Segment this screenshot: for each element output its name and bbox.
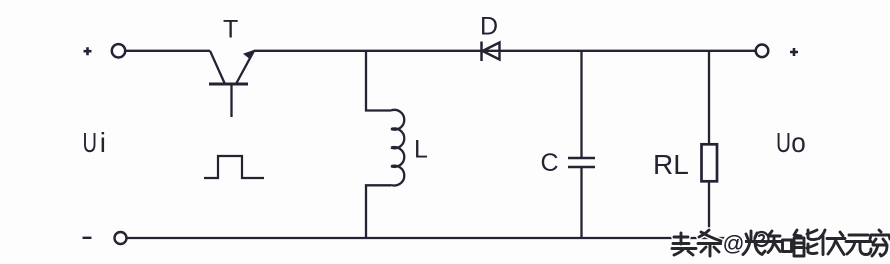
- transistor T base lead: [230, 85, 232, 117]
- node + (input positive polarity mark): [84, 47, 92, 55]
- transistor T base bar: [209, 83, 248, 86]
- bottom terminal (bottom left): [115, 232, 127, 244]
- watermark char 穷: [870, 230, 890, 256]
- watermark char 光 with circle mark: [743, 231, 769, 255]
- node + (output positive polarity mark): [790, 48, 798, 56]
- pulse waveform symbol (base drive): [204, 156, 264, 178]
- capacitor C branch: top wire: [580, 51, 582, 158]
- transistor T collector arrowhead: [243, 50, 255, 59]
- wire top rail: collector to output terminal: [254, 50, 756, 52]
- output terminal (top right): [756, 45, 769, 58]
- watermark white halo pass: [672, 230, 890, 256]
- capacitor C bottom plate: [568, 166, 595, 169]
- watermark char 能: [794, 230, 817, 256]
- diode D triangle (pointing left): [483, 43, 500, 60]
- svg-text:@: @: [723, 232, 745, 256]
- svg-text:C: C: [541, 149, 559, 177]
- svg-text:o: o: [791, 127, 806, 158]
- svg-text:i: i: [100, 127, 106, 158]
- label Uo: [776, 127, 806, 158]
- svg-text:U: U: [83, 127, 98, 158]
- svg-text:L: L: [414, 136, 428, 164]
- inductor L coil: [391, 110, 404, 186]
- resistor RL bottom wire: [708, 181, 710, 238]
- diode D cathode bar: [480, 42, 483, 62]
- capacitor C top plate: [568, 157, 595, 160]
- svg-text:T: T: [223, 16, 238, 44]
- svg-text:RL: RL: [653, 149, 689, 180]
- inductor L bottom jog and wire to bottom rail: [366, 185, 391, 238]
- resistor RL body: [702, 144, 718, 181]
- input terminal (top left): [112, 44, 125, 57]
- capacitor C bottom wire: [580, 167, 582, 238]
- transistor T emitter line: [210, 51, 225, 83]
- watermark char 知: [767, 231, 792, 253]
- label Ui: [83, 127, 107, 158]
- node - (negative polarity mark, bottom left): [83, 237, 92, 239]
- transistor T collector line: [237, 51, 255, 83]
- watermark char 无: [846, 235, 871, 255]
- wire input terminal to transistor emitter: [126, 50, 210, 52]
- watermark char 头: [672, 233, 696, 255]
- watermark 头条@光知能伏无穷 (bottom right): [672, 230, 890, 256]
- watermark char 伏: [819, 230, 845, 255]
- resistor RL branch: top wire: [708, 51, 710, 144]
- inductor L branch: drop wire and top jog: [366, 51, 391, 111]
- watermark char 条: [698, 230, 722, 256]
- wire bottom rail: [127, 237, 744, 239]
- svg-text:D: D: [480, 13, 498, 41]
- svg-text:U: U: [776, 127, 791, 158]
